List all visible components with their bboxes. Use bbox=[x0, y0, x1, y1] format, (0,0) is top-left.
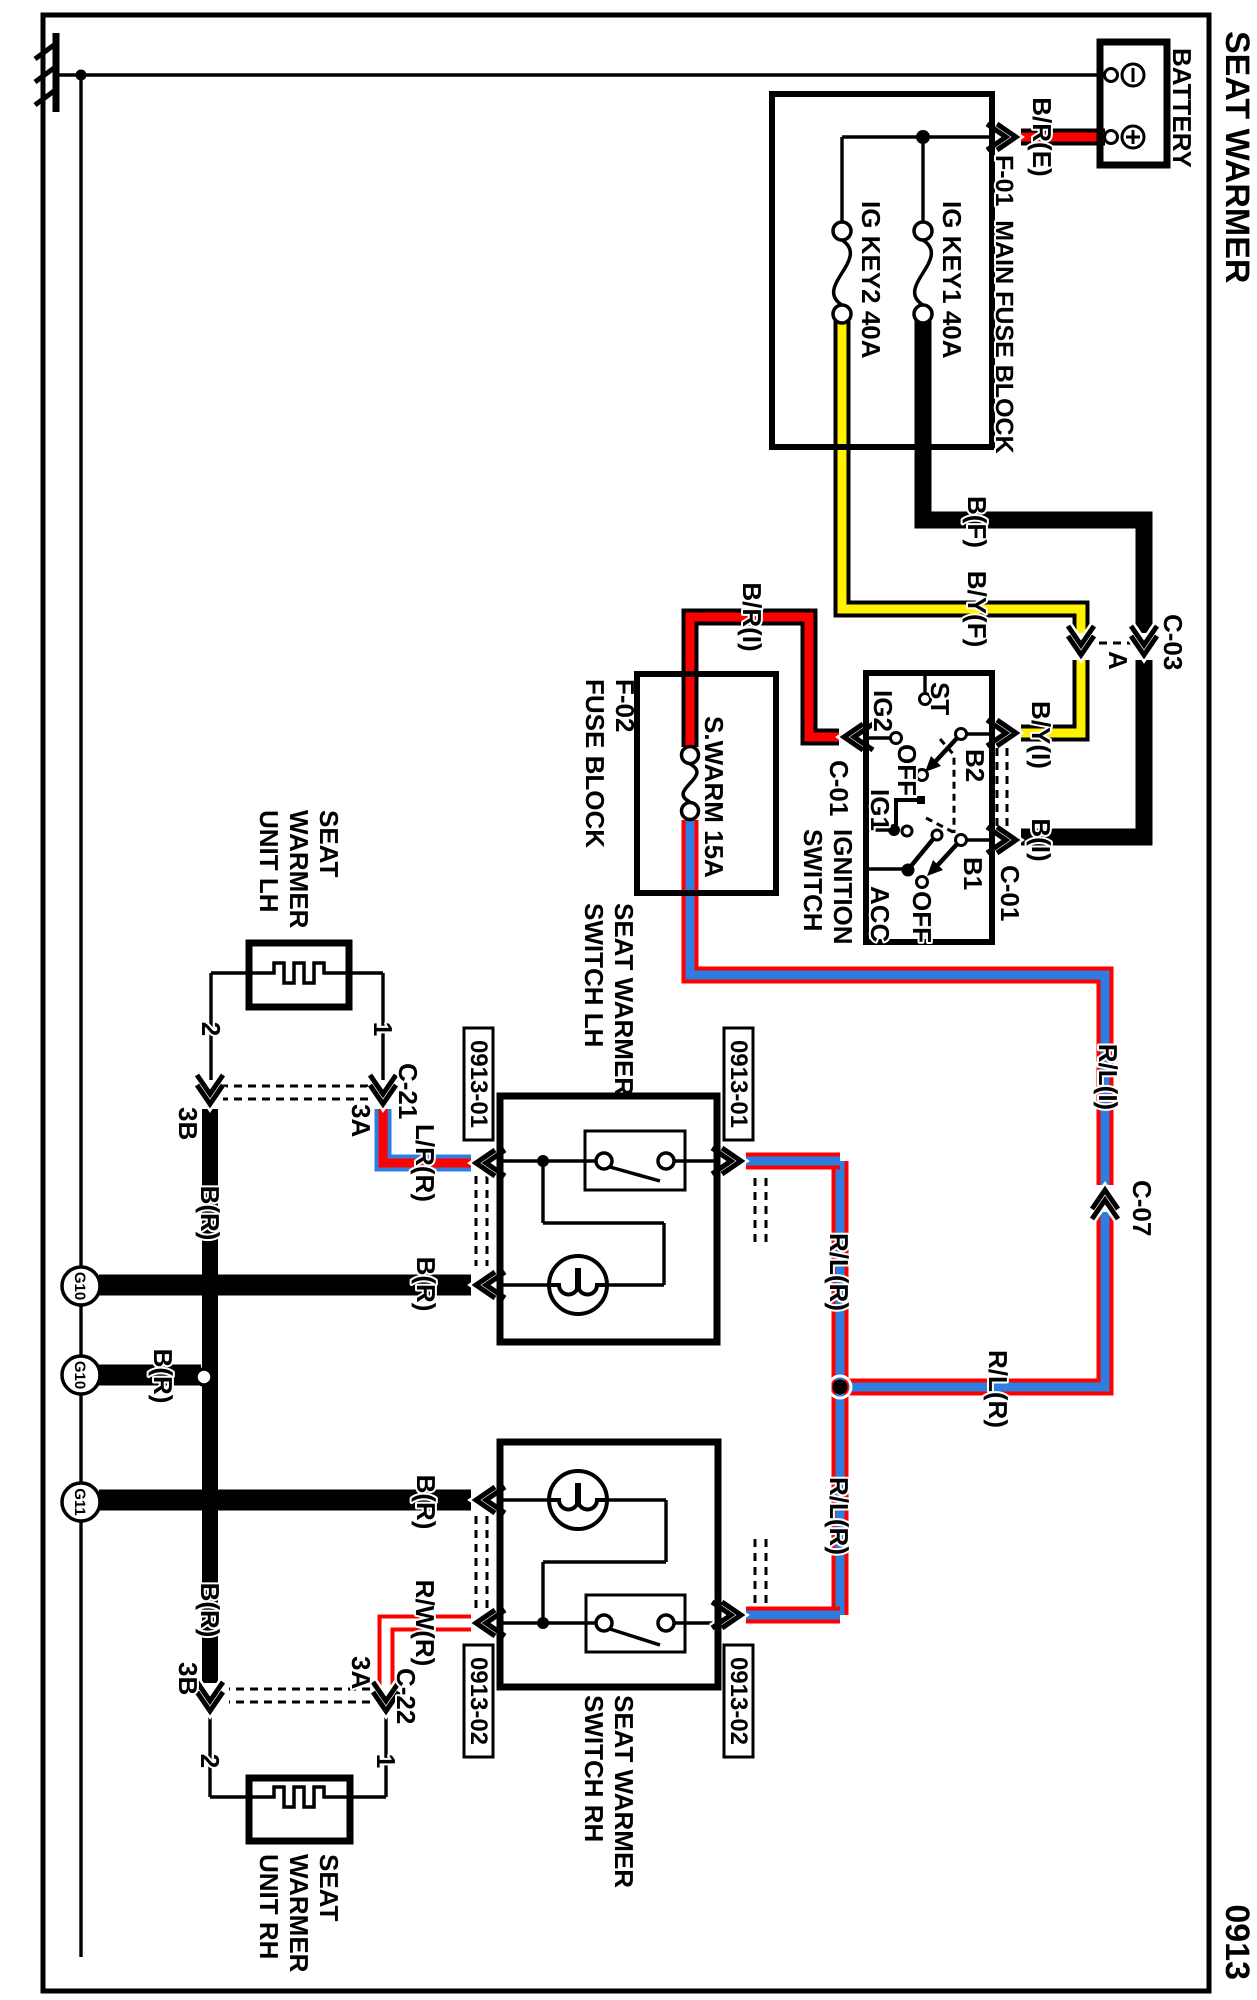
svg-text:B(R): B(R) bbox=[148, 1349, 178, 1404]
svg-text:3A: 3A bbox=[346, 1104, 376, 1137]
svg-text:BATTERY: BATTERY bbox=[1167, 48, 1197, 168]
svg-text:SEAT: SEAT bbox=[314, 810, 344, 878]
svg-text:3B: 3B bbox=[173, 1662, 203, 1695]
svg-text:0913-02: 0913-02 bbox=[465, 1657, 492, 1745]
svg-text:C-01: C-01 bbox=[824, 760, 854, 816]
svg-text:IG KEY2 40A: IG KEY2 40A bbox=[856, 201, 886, 359]
svg-text:G10: G10 bbox=[71, 1272, 88, 1300]
svg-text:0913-01: 0913-01 bbox=[725, 1040, 752, 1128]
svg-text:C-03: C-03 bbox=[1158, 614, 1188, 670]
svg-text:ACC: ACC bbox=[865, 886, 895, 943]
svg-text:ST: ST bbox=[925, 682, 955, 715]
svg-text:UNIT RH: UNIT RH bbox=[254, 1854, 284, 1959]
svg-text:R/W(R): R/W(R) bbox=[410, 1580, 440, 1667]
svg-text:B/R(I): B/R(I) bbox=[737, 582, 767, 651]
svg-text:FUSE BLOCK: FUSE BLOCK bbox=[580, 679, 610, 848]
svg-text:IG1: IG1 bbox=[865, 789, 895, 831]
svg-text:B(R): B(R) bbox=[195, 1186, 225, 1241]
svg-text:OFF: OFF bbox=[907, 891, 937, 943]
svg-text:F-01 MAIN FUSE BLOCK: F-01 MAIN FUSE BLOCK bbox=[990, 155, 1018, 454]
svg-text:B(I): B(I) bbox=[1026, 818, 1056, 861]
svg-text:IGNITION: IGNITION bbox=[828, 829, 858, 945]
svg-text:G10: G10 bbox=[71, 1361, 88, 1389]
svg-text:C-22: C-22 bbox=[391, 1668, 421, 1724]
svg-text:SWITCH RH: SWITCH RH bbox=[579, 1695, 609, 1842]
svg-text:0913-02: 0913-02 bbox=[725, 1657, 752, 1745]
svg-text:B2: B2 bbox=[960, 749, 990, 782]
svg-text:0913-01: 0913-01 bbox=[465, 1040, 492, 1128]
svg-text:C-21: C-21 bbox=[393, 1063, 423, 1119]
svg-text:IG KEY1 40A: IG KEY1 40A bbox=[937, 201, 967, 359]
svg-text:WARMER: WARMER bbox=[284, 810, 314, 929]
svg-text:F-02: F-02 bbox=[610, 679, 640, 732]
svg-text:G11: G11 bbox=[71, 1488, 88, 1516]
svg-text:C-07: C-07 bbox=[1127, 1180, 1157, 1236]
svg-text:SEAT WARMER: SEAT WARMER bbox=[1218, 31, 1256, 283]
svg-text:3B: 3B bbox=[173, 1107, 203, 1140]
svg-text:IG2: IG2 bbox=[868, 690, 898, 732]
svg-text:R/L(I): R/L(I) bbox=[1093, 1044, 1123, 1110]
svg-text:R/L(R): R/L(R) bbox=[824, 1233, 854, 1311]
svg-text:SWITCH LH: SWITCH LH bbox=[579, 903, 609, 1047]
svg-text:SWITCH: SWITCH bbox=[798, 829, 828, 932]
svg-text:UNIT LH: UNIT LH bbox=[254, 810, 284, 913]
svg-text:C-01: C-01 bbox=[995, 865, 1025, 921]
svg-text:1: 1 bbox=[371, 1754, 401, 1768]
svg-text:OFF: OFF bbox=[892, 744, 922, 796]
svg-text:S.WARM 15A: S.WARM 15A bbox=[699, 716, 729, 878]
svg-text:B(R): B(R) bbox=[411, 1257, 441, 1312]
svg-text:SEAT WARMER: SEAT WARMER bbox=[609, 903, 639, 1096]
svg-text:SEAT: SEAT bbox=[314, 1854, 344, 1922]
svg-text:B/Y(F): B/Y(F) bbox=[962, 571, 992, 648]
svg-text:2: 2 bbox=[196, 1022, 226, 1036]
svg-text:B1: B1 bbox=[958, 857, 988, 890]
svg-text:R/L(R): R/L(R) bbox=[824, 1477, 854, 1555]
svg-text:SEAT WARMER: SEAT WARMER bbox=[609, 1695, 639, 1888]
svg-text:2: 2 bbox=[195, 1754, 225, 1768]
svg-text:B(R): B(R) bbox=[195, 1583, 225, 1638]
svg-text:A: A bbox=[1103, 651, 1133, 670]
svg-text:WARMER: WARMER bbox=[284, 1854, 314, 1973]
svg-text:B/R(E): B/R(E) bbox=[1027, 97, 1057, 176]
svg-text:B(F): B(F) bbox=[962, 496, 992, 548]
svg-text:B(R): B(R) bbox=[411, 1475, 441, 1530]
svg-text:3A: 3A bbox=[346, 1656, 376, 1689]
svg-text:1: 1 bbox=[368, 1022, 398, 1036]
svg-text:L/R(R): L/R(R) bbox=[410, 1124, 440, 1202]
svg-text:R/L(R): R/L(R) bbox=[983, 1350, 1013, 1428]
svg-text:0913: 0913 bbox=[1218, 1904, 1256, 1980]
svg-text:B/Y(I): B/Y(I) bbox=[1026, 701, 1056, 769]
